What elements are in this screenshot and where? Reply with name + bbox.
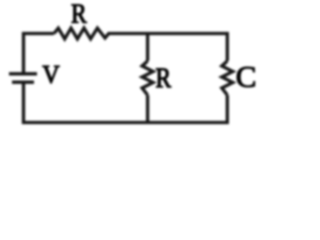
label C (right element): [237, 67, 255, 87]
capacitor C1 (right vertical zigzag element): [222, 61, 233, 95]
wire: left branch (battery top lead, top-left corner, top wire to resistor R1): [24, 34, 55, 74]
resistor R2 (middle vertical zigzag): [142, 61, 153, 95]
battery V1 top plate (long): [9, 72, 37, 75]
wire: top wire from R1 to top-right corner and down to C1 top lead: [108, 34, 228, 62]
wire: middle branch bottom stub (node at bottom wire): [146, 95, 149, 123]
wire: middle branch top stub (node at top wire): [146, 34, 149, 62]
resistor R1 (top horizontal zigzag): [54, 28, 109, 39]
label V (battery): [43, 66, 60, 83]
label R (middle resistor): [156, 69, 171, 88]
battery V1 bottom plate (short): [12, 81, 34, 84]
wire: bottom wire from C1 bottom lead, bottom-right corner, to battery bottom lead: [24, 82, 228, 122]
label R (top resistor): [72, 4, 87, 22]
